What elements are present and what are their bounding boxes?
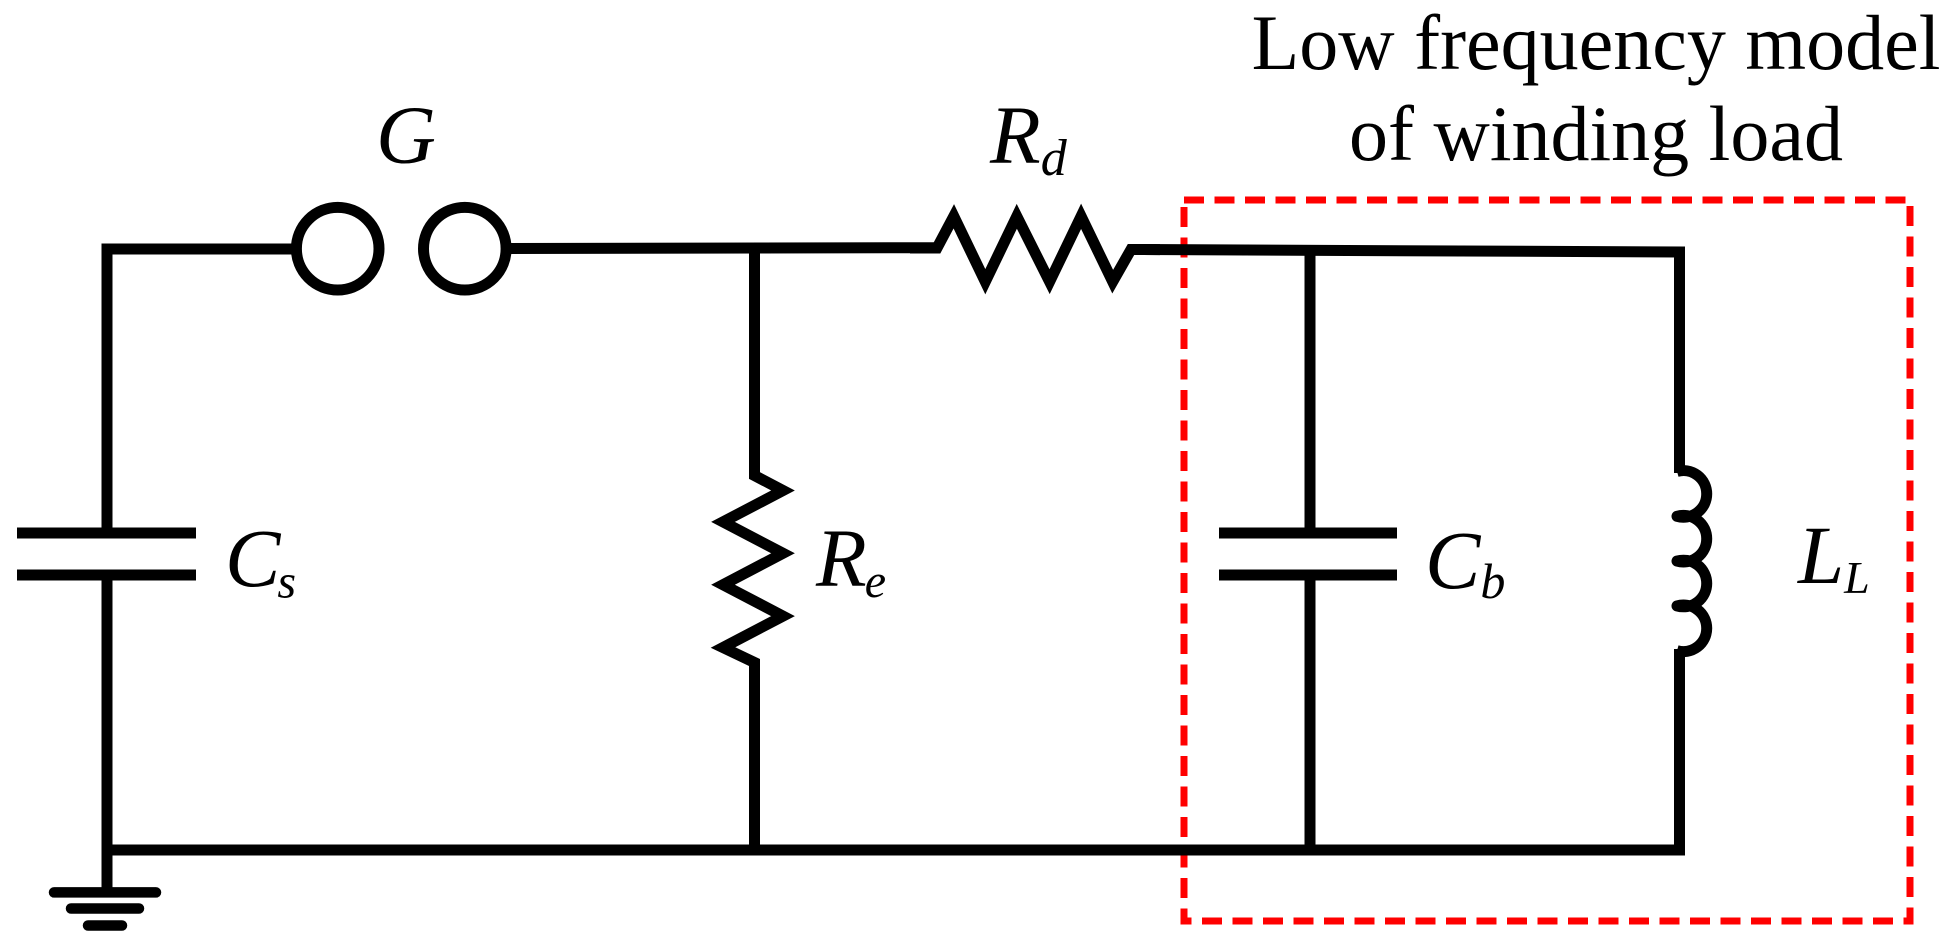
wire: top rail from gap to Rd [506,242,937,254]
wire: top-left corner (left vertical + top rail to gap) [107,249,296,538]
capacitor Cb top plate [1219,528,1397,539]
wire: Cs lower lead down to ground [102,575,113,892]
ground [54,892,156,925]
wire: Re upper lead [749,243,760,476]
wire: top rail from Rd to top-right corner, then down to coil [1131,250,1680,474]
resistor Rd [910,216,1160,281]
svg-text:Low frequency model: Low frequency model [1252,0,1941,86]
wire: Cb lower lead [1305,575,1316,855]
wire: Re lower lead [749,663,760,856]
capacitor Cb bottom plate [1219,570,1397,581]
wire: bottom rail [102,845,1686,856]
wire: Cb upper lead [1305,245,1316,533]
resistor Re [723,450,783,690]
inductor LL coil [1677,471,1707,652]
svg-text:of winding load: of winding load [1349,90,1843,177]
spark gap G left electrode [296,207,379,290]
capacitor Cs top plate [17,528,196,539]
svg-text:G: G [376,89,436,181]
capacitor Cs bottom plate [17,570,196,581]
spark gap G right electrode [424,207,507,290]
wire: right branch lower vertical [1674,649,1685,855]
red dashed box: low frequency model of winding load [1184,200,1910,921]
